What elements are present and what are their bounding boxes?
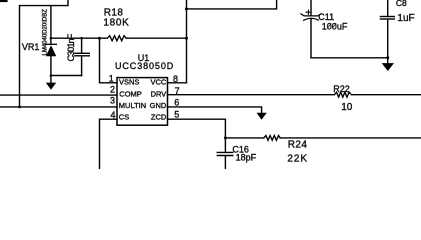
svg-text:5: 5: [174, 109, 179, 119]
svg-text:18pF: 18pF: [236, 152, 257, 162]
svg-text:COMP: COMP: [119, 89, 142, 98]
svg-text:ZCD: ZCD: [151, 113, 167, 122]
svg-text:R22: R22: [333, 84, 350, 94]
svg-text:1uF: 1uF: [397, 13, 414, 24]
svg-text:7: 7: [175, 86, 180, 96]
svg-text:UCC38050D: UCC38050D: [115, 61, 174, 71]
svg-text:CS: CS: [119, 113, 129, 122]
svg-text:3: 3: [110, 96, 115, 106]
svg-text:100uF: 100uF: [322, 21, 348, 31]
svg-text:MULTIN: MULTIN: [119, 101, 146, 110]
svg-text:22K: 22K: [287, 153, 308, 164]
svg-text:GND: GND: [150, 101, 167, 110]
svg-text:2: 2: [110, 84, 115, 94]
svg-text:8: 8: [173, 74, 178, 84]
svg-text:VSNS: VSNS: [119, 77, 139, 86]
svg-text:4: 4: [110, 110, 115, 120]
svg-text:R24: R24: [288, 140, 308, 151]
svg-text:10: 10: [341, 102, 353, 113]
svg-text:VCC: VCC: [150, 77, 166, 86]
svg-text:180K: 180K: [103, 18, 129, 29]
svg-text:6: 6: [174, 98, 179, 108]
svg-text:LM4040D20IDBZ: LM4040D20IDBZ: [43, 9, 49, 56]
svg-text:VR1: VR1: [22, 42, 40, 52]
svg-text:1: 1: [109, 73, 114, 83]
svg-text:DRV: DRV: [151, 89, 167, 98]
svg-text:C301nF: C301nF: [66, 33, 76, 61]
svg-text:C8: C8: [396, 0, 407, 8]
